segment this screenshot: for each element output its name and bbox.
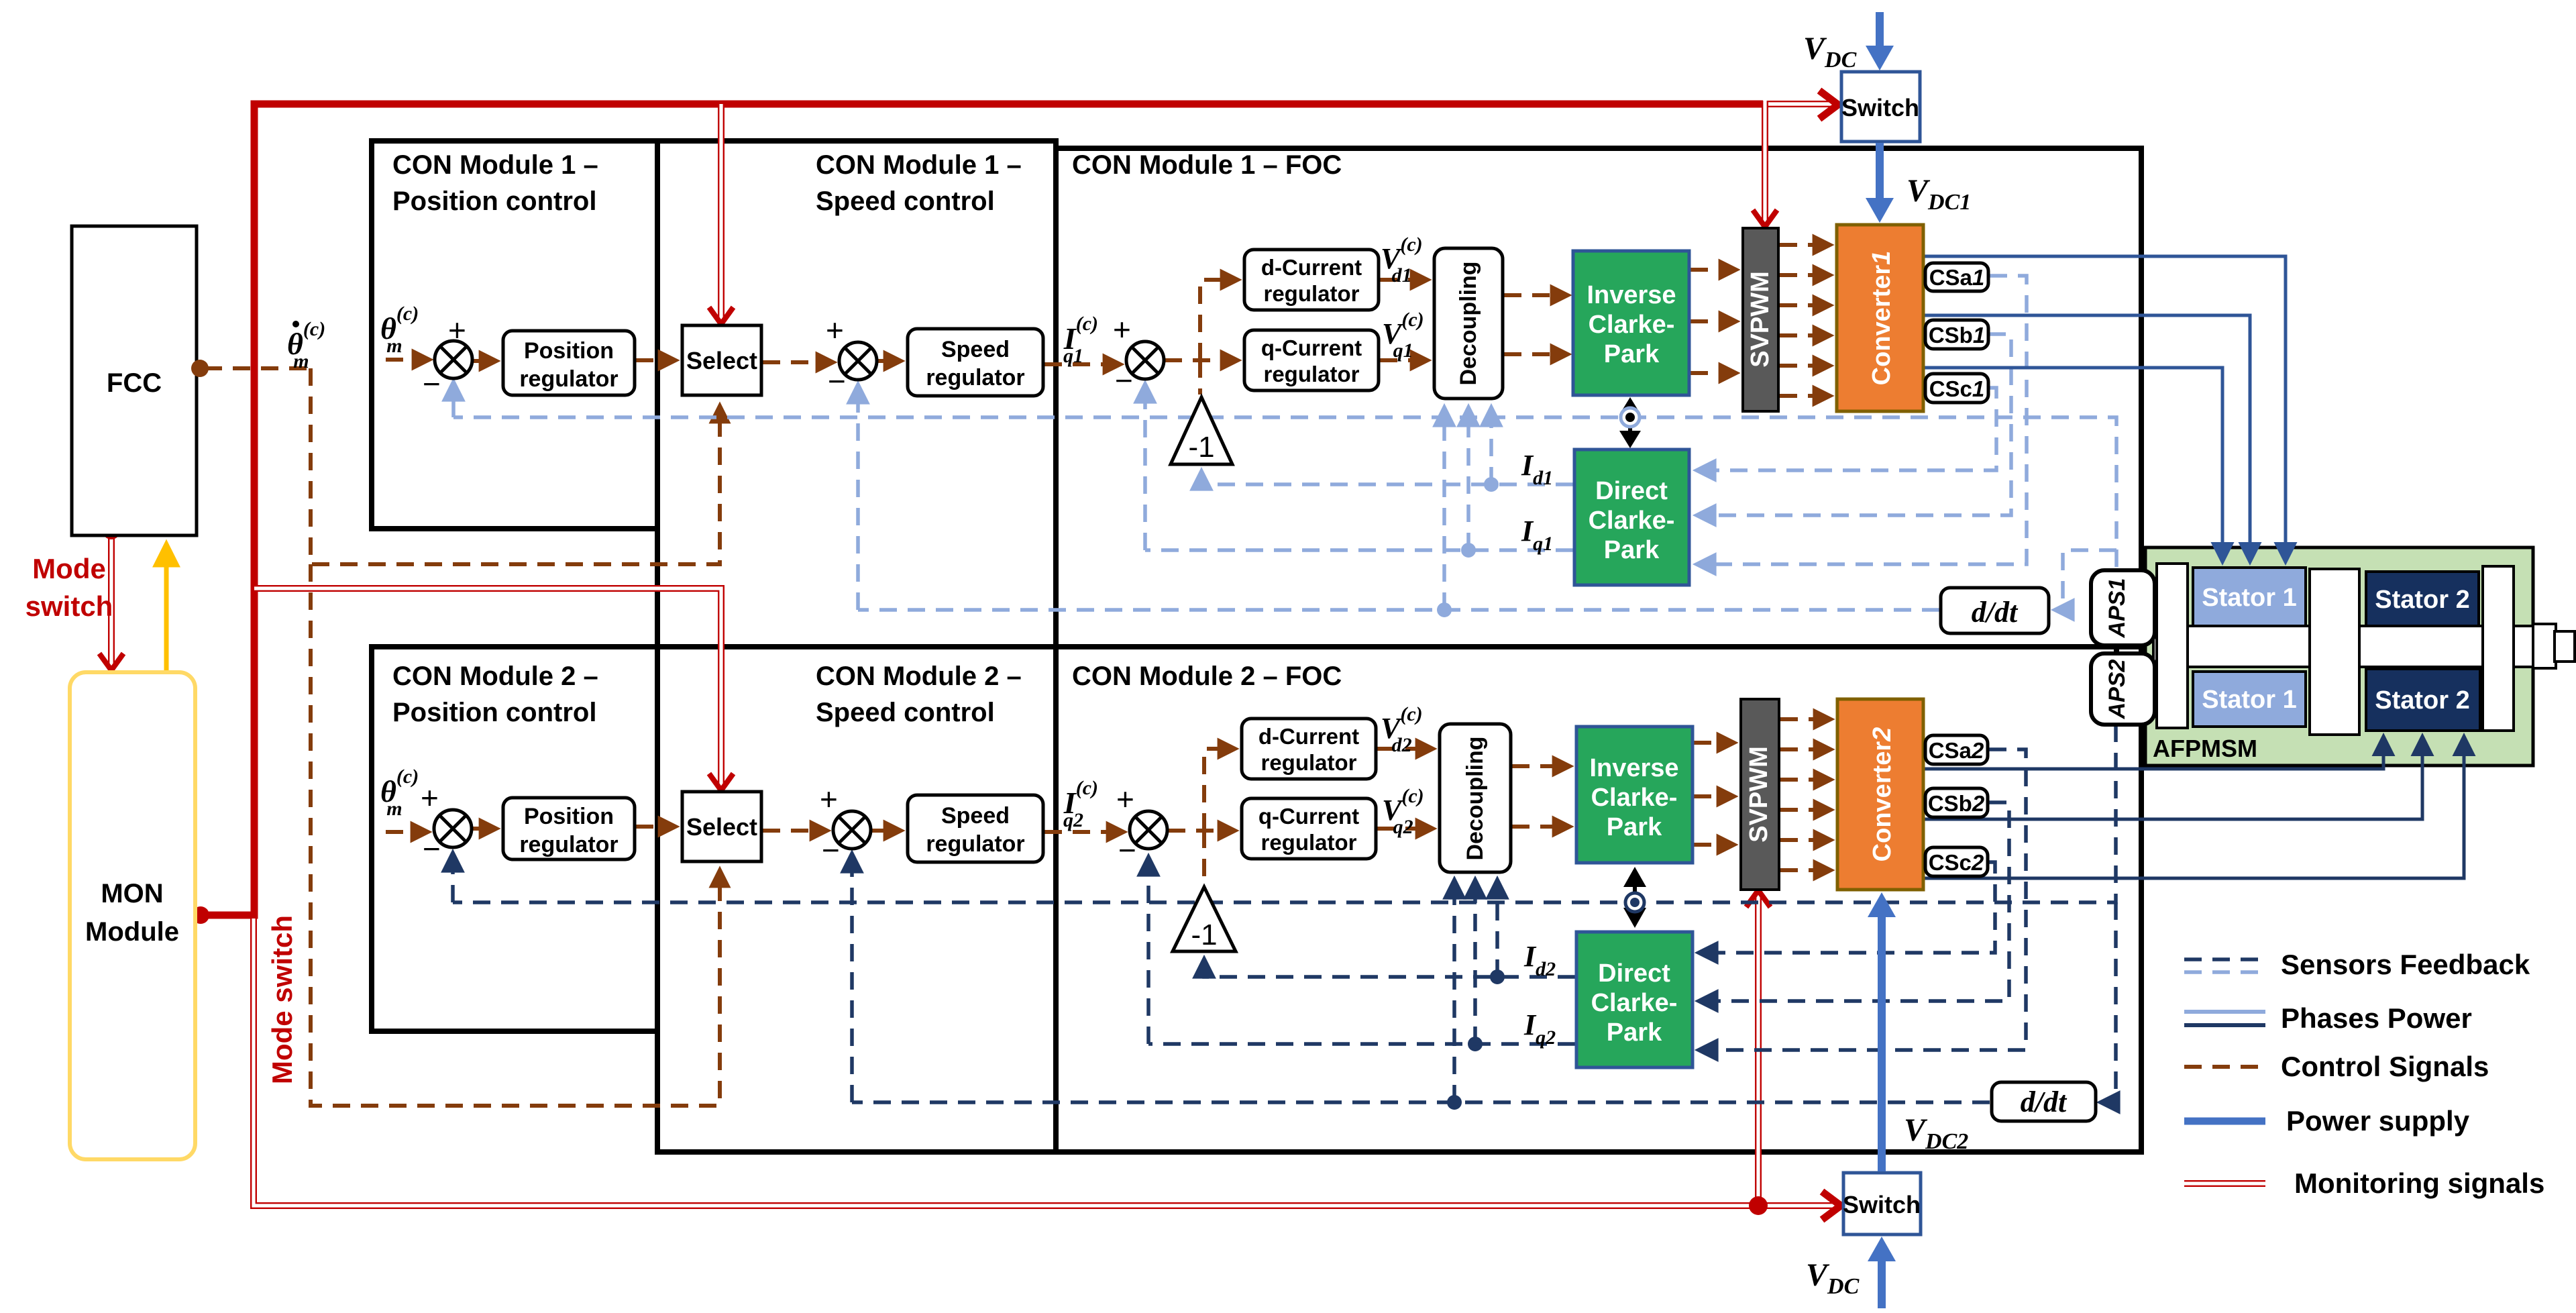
svg-text:Position: Position xyxy=(524,338,614,364)
svg-text:CON Module 1 –: CON Module 1 – xyxy=(816,150,1022,180)
continue down to d/dt 2 xyxy=(2101,902,2116,1102)
svg-text:Monitoring signals: Monitoring signals xyxy=(2294,1167,2544,1199)
svg-text:CSc1: CSc1 xyxy=(1929,376,1985,401)
svg-text:Clarke-: Clarke- xyxy=(1591,784,1678,812)
wire Position regulator 1 to Select1 xyxy=(636,358,676,362)
APS link black xyxy=(2114,645,2119,653)
wire q-Current regulator 2 to Decoupling 2 xyxy=(1377,827,1433,831)
stator 1 top xyxy=(2193,568,2306,627)
wire junction down to -1 gain 2 xyxy=(1202,831,1206,884)
svg-text:CSb2: CSb2 xyxy=(1928,791,1985,816)
arrow into position sum 1 xyxy=(451,382,455,417)
svg-text:CON Module 1 –: CON Module 1 – xyxy=(392,150,598,180)
svg-text:CON Module 2 –: CON Module 2 – xyxy=(392,662,598,691)
svg-text:regulator: regulator xyxy=(519,366,618,392)
svg-text:Park: Park xyxy=(1604,536,1660,564)
CON Module 2 Speed control box xyxy=(657,647,1056,1152)
MON Module box xyxy=(70,672,195,1159)
svg-text:Converter2: Converter2 xyxy=(1868,727,1896,862)
CSb1 sensor xyxy=(1925,320,1988,349)
rotor disc left xyxy=(2157,564,2188,728)
svg-text:Park: Park xyxy=(1607,1018,1662,1047)
svg-text:APS1: APS1 xyxy=(2104,578,2130,639)
svg-text:Stator 1: Stator 1 xyxy=(2202,584,2296,612)
wire Speed regulator 1 to FOC sum 1 xyxy=(1044,362,1120,366)
wire junction up to d-Current regulator 2 xyxy=(1204,749,1235,831)
svg-text:CSa2: CSa2 xyxy=(1929,738,1984,763)
wire Position regulator 2 to Select2 xyxy=(636,825,676,829)
CSc1 sensor xyxy=(1925,374,1988,403)
legend control signals xyxy=(2184,1065,2265,1069)
CSb1 sensor feedback xyxy=(1697,334,2011,515)
CON Module 2 FOC box xyxy=(1056,647,2141,1152)
svg-text:Stator 2: Stator 2 xyxy=(2375,586,2469,614)
svg-text:regulator: regulator xyxy=(519,832,618,857)
svg-text:Position control: Position control xyxy=(392,187,596,216)
VDC supply arrow into Switch2 xyxy=(1878,1261,1886,1308)
Position regulator 2 xyxy=(503,798,635,859)
svg-text:switch: switch xyxy=(25,590,113,622)
red double line to Select2 xyxy=(254,588,721,787)
svg-text:Switch: Switch xyxy=(1843,1191,1921,1218)
svg-text:−: − xyxy=(1118,833,1136,868)
svg-text:−: − xyxy=(822,833,840,868)
svg-text:Select: Select xyxy=(686,347,757,374)
svg-text:−: − xyxy=(423,366,441,401)
svg-text:CSa1: CSa1 xyxy=(1929,265,1985,290)
CSc2 sensor feedback xyxy=(1699,862,1995,953)
shaft xyxy=(2153,626,2536,667)
wires Inverse Clarke-Park 2 to SVPWM 2 xyxy=(1694,741,1734,745)
Inverse Clarke-Park 2 xyxy=(1576,727,1693,863)
rotor disc right xyxy=(2483,566,2514,731)
wires SVPWM 2 to Converter 2 xyxy=(1780,717,1831,721)
wire FOC sum 2 to q-Current regulator 2 xyxy=(1168,829,1235,833)
wires SVPWM 1 to Converter 1 xyxy=(1780,243,1830,247)
d-Current regulator 1 xyxy=(1244,250,1379,310)
wire q-Current regulator 1 to Decoupling 1 xyxy=(1380,358,1428,362)
wire Decoupling 2 to Inverse Clarke-Park 2 (q) xyxy=(1512,825,1570,829)
svg-text:Position: Position xyxy=(524,804,614,829)
CON Module 1 Position control box xyxy=(372,141,657,529)
q-Current regulator 1 xyxy=(1244,330,1379,390)
Iq1 line from Direct Clarke-Park 1 to FOC sum 1 xyxy=(1145,548,1573,552)
svg-text:CON Module 2 –: CON Module 2 – xyxy=(816,662,1022,691)
FCC box xyxy=(72,226,197,535)
svg-text:Park: Park xyxy=(1604,340,1660,368)
Decoupling 1 xyxy=(1434,248,1503,399)
d/dt 1 xyxy=(1941,588,2049,633)
Inverse Clarke-Park 1 xyxy=(1573,251,1689,395)
svg-text:Stator 1: Stator 1 xyxy=(2202,686,2296,714)
CON Module 1 Speed control box xyxy=(657,141,1056,647)
Speed regulator 2 xyxy=(908,795,1043,862)
Speed regulator 1 xyxy=(908,329,1043,396)
Select 1 xyxy=(682,325,761,395)
wire theta_m2 into position sum 2 xyxy=(386,830,428,834)
svg-text:Control Signals: Control Signals xyxy=(2281,1051,2489,1082)
wire Select2 to speed sum 2 xyxy=(763,829,827,833)
legend power supply xyxy=(2184,1118,2265,1125)
svg-text:Park: Park xyxy=(1607,813,1662,841)
CON Module 2 Position control box xyxy=(372,647,657,1031)
red arrowhead into Switch1 xyxy=(1819,91,1838,119)
wire speed command branch down to Select1 xyxy=(311,368,720,564)
stator 2 top xyxy=(2366,572,2479,627)
legend phases power xyxy=(2184,1010,2265,1014)
wire Decoupling 1 to Inverse Clarke-Park 1 (q) xyxy=(1504,352,1568,356)
Direct Clarke-Park 1 xyxy=(1574,450,1689,585)
svg-text:Module: Module xyxy=(85,917,179,947)
svg-text:d-Current: d-Current xyxy=(1258,724,1359,749)
svg-text:q-Current: q-Current xyxy=(1258,804,1359,829)
wire sum2 to Position regulator 2 xyxy=(472,827,496,831)
wire speed sum 2 to Speed regulator 2 xyxy=(871,829,901,833)
svg-text:Inverse: Inverse xyxy=(1589,754,1678,782)
Id1 line from Direct Clarke-Park 1 to -1 gain xyxy=(1201,472,1573,484)
wire Select1 to speed sum 1 xyxy=(763,360,833,364)
wire Decoupling 1 to Inverse Clarke-Park 1 (d) xyxy=(1504,293,1568,297)
svg-text:+: + xyxy=(448,313,466,348)
svg-text:+: + xyxy=(1113,312,1131,347)
svg-text:Position control: Position control xyxy=(392,698,596,727)
wire Speed regulator 2 to FOC sum 2 xyxy=(1044,830,1124,834)
svg-text:d-Current: d-Current xyxy=(1261,255,1362,280)
FOC q-sum 1 xyxy=(1126,342,1164,379)
arrow into speed sum 1 xyxy=(856,385,860,610)
SVPWM 2 xyxy=(1741,699,1779,890)
svg-text:regulator: regulator xyxy=(1260,830,1356,855)
CSa2 sensor feedback xyxy=(1699,749,2026,1050)
svg-text:Decoupling: Decoupling xyxy=(1456,261,1481,385)
stator 1 bottom xyxy=(2193,672,2306,727)
svg-text:+: + xyxy=(820,782,838,817)
svg-text:Direct: Direct xyxy=(1595,477,1668,505)
svg-text:−: − xyxy=(828,364,846,399)
wire speed sum 1 to Speed regulator 1 xyxy=(877,359,901,363)
feedback theta1 from APS1 up and across (line A1) xyxy=(453,417,2116,567)
speed sum 1 xyxy=(839,342,877,380)
black link Inverse/Direct Clarke-Park 2 with ring junction on line A2 xyxy=(1633,879,1637,914)
svg-text:CSb1: CSb1 xyxy=(1929,323,1985,348)
VDC supply arrow into Switch1 xyxy=(1876,12,1884,47)
Converter 2 xyxy=(1837,699,1923,890)
wire FOC sum 1 to q-Current regulator 1 xyxy=(1165,358,1238,362)
svg-text:-1: -1 xyxy=(1191,918,1217,951)
APS2 sensor box xyxy=(2091,653,2155,725)
CSa1 sensor xyxy=(1925,263,1988,291)
MON to FCC yellow arrow xyxy=(164,545,169,672)
CSc2 sensor xyxy=(1925,847,1988,876)
wire speed command branch down to Select2 xyxy=(311,564,720,1106)
position sum 2 xyxy=(434,810,472,847)
wire d-Current regulator 1 to Decoupling 1 xyxy=(1380,278,1428,282)
svg-text:-1: -1 xyxy=(1188,431,1214,464)
svg-text:FCC: FCC xyxy=(107,368,162,398)
rotor disc middle xyxy=(2310,569,2359,735)
svg-text:APS2: APS2 xyxy=(2104,660,2130,720)
Id2 line from Direct Clarke-Park 2 to -1 gain xyxy=(1204,959,1575,977)
speed feedback line B2 from d/dt 2 xyxy=(852,1100,1990,1104)
Switch2 box xyxy=(1843,1173,1921,1235)
phase c1 power line xyxy=(1925,368,2222,561)
phase b1 power line xyxy=(1925,315,2250,561)
legend sensors feedback xyxy=(2184,957,2265,961)
svg-text:AFPMSM: AFPMSM xyxy=(2153,735,2257,762)
red double drop to SVPWM1 xyxy=(1762,101,1768,223)
wire junction down to -1 gain 1 xyxy=(1198,360,1202,395)
phase a1 power line xyxy=(1925,256,2286,561)
stator 2 bottom xyxy=(2366,669,2480,731)
svg-text:d/dt: d/dt xyxy=(1972,596,2019,629)
svg-text:Select: Select xyxy=(686,813,757,841)
svg-text:Speed control: Speed control xyxy=(816,698,995,727)
MON right red dot and stub xyxy=(192,906,209,924)
wires Inverse Clarke-Park 1 to SVPWM 1 xyxy=(1690,268,1736,272)
wire Decoupling 2 to Inverse Clarke-Park 2 (d) xyxy=(1512,764,1570,768)
svg-text:regulator: regulator xyxy=(926,831,1024,857)
svg-text:Mode: Mode xyxy=(32,553,106,584)
svg-text:Direct: Direct xyxy=(1598,959,1670,988)
VDC1 arrow Switch1 to Converter1 xyxy=(1876,143,1884,198)
d-Current regulator 2 xyxy=(1242,719,1376,779)
-1 gain 2 xyxy=(1173,887,1236,951)
phase a2 power line xyxy=(1925,737,2383,769)
svg-text:CON Module 1 – FOC: CON Module 1 – FOC xyxy=(1072,150,1342,180)
svg-text:Clarke-: Clarke- xyxy=(1591,989,1678,1017)
feedback theta2 from APS2 down and across (line A2) xyxy=(453,725,2116,902)
svg-text:Converter1: Converter1 xyxy=(1868,251,1896,386)
CSa2 sensor xyxy=(1925,735,1988,764)
svg-text:+: + xyxy=(826,313,844,348)
Position regulator 1 xyxy=(503,331,635,395)
Decoupling 2 inputs: omega, Iq, Id xyxy=(1452,880,1456,1102)
Decoupling 2 xyxy=(1440,724,1511,872)
red double bottom run from MON to Switch2 / SVPWM2 xyxy=(254,918,1838,1206)
wire junction up to d-Current regulator 1 xyxy=(1200,280,1238,360)
svg-text:Mode switch: Mode switch xyxy=(266,915,298,1084)
svg-text:Inverse: Inverse xyxy=(1587,281,1676,309)
phase b2 power line xyxy=(1925,737,2422,819)
Direct Clarke-Park 2 xyxy=(1576,932,1693,1067)
CSa1 sensor feedback xyxy=(1697,276,2027,564)
Iq2 line from Direct Clarke-Park 2 to FOC sum 2 xyxy=(1148,1042,1575,1046)
svg-text:Stator 2: Stator 2 xyxy=(2375,686,2469,715)
VDC2 arrow Switch2 to Converter2 xyxy=(1878,916,1886,1171)
speed sum 2 xyxy=(833,811,871,849)
Decoupling 1 inputs: omega, Iq, Id xyxy=(1442,408,1446,610)
svg-text:−: − xyxy=(423,831,441,866)
svg-text:regulator: regulator xyxy=(1263,281,1359,306)
svg-text:SVPWM: SVPWM xyxy=(1746,271,1774,368)
APS1 sensor box xyxy=(2091,570,2155,645)
speed feedback line B1 from d/dt 1 xyxy=(858,608,1939,612)
red double line into Switch1 xyxy=(1765,101,1835,107)
junction dot on bottom red run xyxy=(1749,1196,1768,1215)
svg-text:q-Current: q-Current xyxy=(1261,335,1362,360)
legend monitoring signals xyxy=(2184,1180,2265,1187)
svg-text:Speed control: Speed control xyxy=(816,187,995,216)
wire sum1 to Position regulator 1 xyxy=(473,359,496,363)
phase c2 power line xyxy=(1925,737,2464,878)
svg-text:−: − xyxy=(1115,363,1133,398)
svg-text:CSc2: CSc2 xyxy=(1929,850,1984,875)
CSc1 sensor feedback xyxy=(1697,388,1996,470)
Converter 1 xyxy=(1837,225,1923,411)
d/dt 2 xyxy=(1992,1082,2096,1121)
Select 2 xyxy=(682,792,761,861)
-1 gain 1 xyxy=(1171,397,1232,464)
position sum 1 xyxy=(435,341,472,378)
svg-text:regulator: regulator xyxy=(1263,362,1359,386)
AFPMSM motor housing xyxy=(2145,547,2533,766)
SVPWM 1 xyxy=(1743,228,1778,411)
svg-text:Clarke-: Clarke- xyxy=(1589,311,1675,339)
brown dot at FCC output xyxy=(191,360,209,377)
FOC q-sum 2 xyxy=(1130,811,1167,849)
svg-text:regulator: regulator xyxy=(1260,750,1356,775)
arrow into position sum 2 xyxy=(451,853,455,902)
q-Current regulator 2 xyxy=(1242,798,1376,859)
black link Inverse/Direct Clarke-Park 1 with ring junction on line A1 xyxy=(1628,408,1632,435)
thick red monitoring bus from MON up and across top xyxy=(195,104,1763,915)
red double rise to SVPWM2 xyxy=(1755,894,1762,1206)
svg-text:regulator: regulator xyxy=(926,365,1024,390)
CON Module 1 FOC box xyxy=(1056,148,2141,647)
red double drop to Select1 xyxy=(718,104,724,321)
svg-text:Clarke-: Clarke- xyxy=(1589,507,1675,535)
wire FCC to position sum 1 xyxy=(205,366,310,370)
svg-text:MON: MON xyxy=(101,879,163,908)
arrow into speed sum 2 xyxy=(850,854,854,1102)
svg-text:CON Module 2 – FOC: CON Module 2 – FOC xyxy=(1072,662,1342,691)
CSb2 sensor feedback xyxy=(1699,802,2009,1001)
svg-text:Switch: Switch xyxy=(1841,94,1919,121)
wire d-Current regulator 2 to Decoupling 2 xyxy=(1377,747,1433,751)
svg-text:Decoupling: Decoupling xyxy=(1462,736,1488,860)
svg-text:Phases Power: Phases Power xyxy=(2281,1002,2472,1034)
Switch1 box xyxy=(1841,72,1920,142)
FCC to MON mode switch arrow xyxy=(108,531,115,667)
svg-text:Sensors Feedback: Sensors Feedback xyxy=(2281,949,2530,980)
CSb2 sensor xyxy=(1925,788,1988,817)
svg-text:Speed: Speed xyxy=(941,803,1010,829)
svg-text:Speed: Speed xyxy=(941,337,1010,362)
svg-text:Power supply: Power supply xyxy=(2286,1105,2470,1137)
svg-text:SVPWM: SVPWM xyxy=(1745,746,1773,843)
svg-text:d/dt: d/dt xyxy=(2021,1086,2068,1118)
svg-text:+: + xyxy=(421,780,439,815)
svg-text:+: + xyxy=(1116,782,1134,817)
tap to d/dt 1 xyxy=(2055,550,2116,610)
